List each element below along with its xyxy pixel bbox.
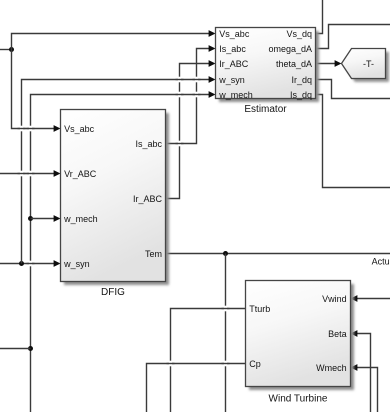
svg-text:theta_dA: theta_dA bbox=[276, 59, 312, 69]
svg-text:Beta: Beta bbox=[328, 329, 347, 339]
wire Is_abc from DFIG output 1 to Estimator input 2 bbox=[166, 45, 216, 143]
wire w_syn branch up to Estimator input 4 bbox=[22, 76, 216, 263]
block Wind Turbine bbox=[246, 281, 351, 387]
goto tag -T- bbox=[342, 49, 386, 79]
wire crossover gaps (horizontal wires pass over verticals) bbox=[18, 77, 230, 367]
wire Vr_ABC from left edge to DFIG input 2 bbox=[0, 170, 61, 177]
block Wind Turbine shadow bbox=[249, 284, 354, 390]
wire Vwind from right edge to Wind Turbine right input 1 bbox=[351, 295, 390, 302]
wire Wmech from bottom edge to Wind Turbine right input 3 bbox=[351, 364, 378, 412]
junction node w_mech lower branch bbox=[28, 346, 33, 351]
svg-text:Ir_dq: Ir_dq bbox=[291, 75, 312, 85]
svg-text:Is_dq: Is_dq bbox=[290, 90, 312, 100]
svg-text:w_mech: w_mech bbox=[63, 214, 98, 224]
svg-text:Estimator: Estimator bbox=[244, 104, 287, 115]
wire w_syn from left edge to DFIG input 4 bbox=[0, 260, 61, 267]
svg-text:Ir_ABC: Ir_ABC bbox=[133, 194, 163, 204]
svg-text:w_syn: w_syn bbox=[63, 259, 90, 269]
wire Cp from bottom edge to Wind Turbine left port 2 bbox=[147, 364, 246, 412]
svg-text:omega_dA: omega_dA bbox=[268, 44, 312, 54]
svg-text:Is_abc: Is_abc bbox=[219, 44, 246, 54]
block DFIG bbox=[61, 110, 166, 282]
svg-text:Vs_abc: Vs_abc bbox=[64, 124, 95, 134]
wire w_mech branch to left edge bbox=[0, 348, 31, 350]
svg-text:Ir_ABC: Ir_ABC bbox=[219, 59, 249, 69]
wire Vs_abc source from left edge to junction bbox=[0, 49, 12, 51]
svg-text:Wind Turbine: Wind Turbine bbox=[269, 393, 328, 404]
junction node w_mech bbox=[28, 216, 33, 221]
wire Ir_ABC from DFIG output 2 to Estimator input 3 bbox=[166, 60, 216, 198]
wire theta_dA from Estimator output 3 to Goto tag bbox=[316, 60, 342, 67]
wire Vs_abc branch down to DFIG input 1 bbox=[12, 50, 61, 132]
svg-text:Actual: Actual bbox=[372, 256, 390, 266]
svg-text:Tturb: Tturb bbox=[249, 304, 270, 314]
svg-text:Cp: Cp bbox=[249, 359, 261, 369]
wire Beta from bottom edge to Wind Turbine right input 2 bbox=[351, 330, 371, 412]
svg-text:Vs_abc: Vs_abc bbox=[219, 29, 250, 39]
svg-text:Wmech: Wmech bbox=[316, 363, 347, 373]
svg-text:Is_abc: Is_abc bbox=[135, 139, 162, 149]
junction node Vs_abc bbox=[9, 47, 14, 52]
svg-text:Vs_dq: Vs_dq bbox=[286, 29, 312, 39]
goto tag -T- shadow bbox=[345, 52, 389, 82]
junction node Tem bbox=[223, 251, 228, 256]
wire w_mech branch to DFIG input 3 bbox=[31, 215, 61, 222]
svg-text:DFIG: DFIG bbox=[101, 287, 125, 298]
svg-text:Vr_ABC: Vr_ABC bbox=[64, 169, 97, 179]
label Wind Turbine bbox=[269, 393, 328, 404]
svg-text:Tem: Tem bbox=[145, 249, 162, 259]
svg-text:w_mech: w_mech bbox=[218, 90, 253, 100]
wire Vs_abc branch up to Estimator input 1 bbox=[12, 30, 216, 49]
net label Actual bbox=[372, 256, 390, 266]
block DFIG shadow bbox=[64, 113, 169, 285]
wire w_mech riser from bottom edge to Estimator input 5 bbox=[31, 91, 216, 412]
wire Is_dq from Estimator output 5 to right edge bbox=[316, 95, 390, 188]
label DFIG bbox=[101, 287, 125, 298]
wire omega_dA from Estimator output 2 to right edge bbox=[316, 25, 390, 49]
svg-text:w_syn: w_syn bbox=[218, 75, 245, 85]
block Estimator shadow bbox=[219, 31, 319, 102]
block Estimator bbox=[216, 28, 316, 100]
wire Tem from DFIG output 3 to right edge bbox=[166, 253, 390, 255]
wire Tturb from bottom edge to Wind Turbine left port 1 bbox=[171, 309, 246, 412]
svg-text:Vwind: Vwind bbox=[322, 294, 347, 304]
junction node w_syn bbox=[19, 261, 24, 266]
wire Tem branch down to bottom edge bbox=[225, 254, 227, 412]
label Estimator bbox=[244, 104, 287, 115]
wire Ir_dq from Estimator output 4 to right edge bbox=[316, 80, 390, 99]
wire Vs_dq from Estimator output 1 to top edge bbox=[316, 0, 323, 34]
svg-text:-T-: -T- bbox=[363, 59, 374, 69]
